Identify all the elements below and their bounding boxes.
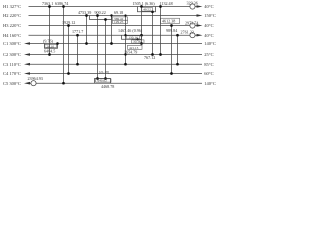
value box 129.25 (H2 split) xyxy=(113,20,128,23)
stream C2 line xyxy=(30,54,203,56)
node H1-63 xyxy=(62,5,65,8)
svg-text:2973.74: 2973.74 xyxy=(185,20,198,25)
svg-text:4468.78: 4468.78 xyxy=(101,84,114,89)
svg-text:4612.38: 4612.38 xyxy=(162,19,175,24)
wire E2 H1-C5 vertical xyxy=(63,7,65,84)
svg-text:6386.74: 6386.74 xyxy=(55,1,68,6)
svg-text:767.12: 767.12 xyxy=(144,55,155,60)
node H4branch-137 xyxy=(136,38,138,40)
svg-text:2761.22: 2761.22 xyxy=(181,30,194,35)
svg-text:C4 170°C: C4 170°C xyxy=(3,71,21,76)
node H2-97 xyxy=(96,14,99,17)
node C3-177 xyxy=(176,63,179,66)
svg-text:4753.39: 4753.39 xyxy=(78,10,91,15)
node H1-160 xyxy=(159,5,162,8)
node C1-112 xyxy=(110,42,113,45)
svg-text:1132.48: 1132.48 xyxy=(160,1,173,6)
svg-text:H4 160°C: H4 160°C xyxy=(3,33,21,38)
node H3-171 xyxy=(170,24,173,27)
stream H4 line xyxy=(29,34,197,36)
node C5branch-105 xyxy=(104,77,107,80)
svg-text:421.13: 421.13 xyxy=(129,46,139,50)
svg-text:30.16: 30.16 xyxy=(133,40,141,44)
node H2-86 xyxy=(85,14,88,17)
node C4-68 xyxy=(67,72,70,75)
svg-text:60°C: 60°C xyxy=(204,71,213,76)
svg-text:40°C: 40°C xyxy=(204,4,213,9)
H2 split loop xyxy=(90,16,112,20)
wire E5 H2-C1 vertical xyxy=(86,16,88,44)
node C2-125 xyxy=(124,53,126,55)
svg-text:C2 300°C: C2 300°C xyxy=(3,52,21,57)
value box 30.16 below H4 loop xyxy=(132,40,145,43)
value box 369.42 (H2 split) xyxy=(113,17,128,20)
wire E4 H4-C3 vertical xyxy=(77,35,79,64)
node C3-77 xyxy=(76,63,79,66)
wire E10 H1branch-C2 vertical xyxy=(152,12,154,55)
node H1branch-152 xyxy=(151,10,154,13)
wire E11 H1-C2b vertical xyxy=(160,7,162,55)
svg-text:(9.76): (9.76) xyxy=(43,38,54,43)
svg-text:23964.93: 23964.93 xyxy=(28,76,43,81)
svg-text:1929.12: 1929.12 xyxy=(62,20,75,25)
wire E1 H1-C2 vertical xyxy=(49,7,51,55)
svg-text:40°C: 40°C xyxy=(204,23,213,28)
svg-text:40°C: 40°C xyxy=(204,33,213,38)
svg-text:150°C: 150°C xyxy=(204,13,216,18)
arrow H4 right xyxy=(197,34,203,37)
svg-text:640.62: 640.62 xyxy=(98,79,108,83)
svg-text:329.36: 329.36 xyxy=(187,0,198,5)
C5 split loop xyxy=(95,79,111,84)
stream H3 line xyxy=(29,25,197,27)
wire E9 H1-H4-C1 vertical xyxy=(141,7,143,44)
node H4-77 xyxy=(76,34,79,37)
stream H2 line xyxy=(29,15,197,17)
svg-text:25°C: 25°C xyxy=(204,52,213,57)
node C3-125 xyxy=(124,63,127,66)
node C2-152 xyxy=(151,53,154,56)
svg-text:140°C: 140°C xyxy=(204,41,216,46)
cooler circle H4 xyxy=(190,33,195,38)
svg-text:C5 300°C: C5 300°C xyxy=(3,81,21,86)
svg-text:1467.46 (0.96): 1467.46 (0.96) xyxy=(118,28,143,33)
arrow C1 left xyxy=(24,42,30,45)
node H2branch-105 xyxy=(104,18,107,21)
node C4-171 xyxy=(170,72,173,75)
wire E13 H4-C3 vertical xyxy=(177,35,179,64)
cooler circle H1 xyxy=(190,4,195,9)
svg-text:1654.79: 1654.79 xyxy=(124,50,137,55)
arrow C5 left xyxy=(24,82,30,85)
svg-text:1771.7: 1771.7 xyxy=(72,29,83,34)
wire E7 H2branch-C5branch vertical xyxy=(105,20,107,79)
svg-text:H2 220°C: H2 220°C xyxy=(3,13,21,18)
svg-text:[21.18]: [21.18] xyxy=(99,70,109,74)
node H2-125 xyxy=(124,14,126,16)
value box 421.13 (C1/C2) xyxy=(128,45,143,49)
stream C1 line xyxy=(30,43,203,45)
node H4-177 xyxy=(176,34,179,37)
value box 49.52 in H1 loop xyxy=(142,7,153,11)
wire E8a H2-C1b vertical xyxy=(111,16,113,44)
node C1-57 xyxy=(56,42,59,45)
svg-text:H3 220°C: H3 220°C xyxy=(3,23,21,28)
svg-text:C3 110°C: C3 110°C xyxy=(3,62,21,67)
svg-text:C1 300°C: C1 300°C xyxy=(3,41,21,46)
arrow H3 right xyxy=(197,24,203,27)
C1 split loop xyxy=(45,44,58,49)
stream H1 line xyxy=(29,6,197,8)
arrow C4 left xyxy=(24,72,30,75)
value box 4612.38 (H3-171) xyxy=(161,18,180,23)
node H1-49 xyxy=(48,5,51,8)
stream C5 line xyxy=(30,82,203,84)
svg-text:900.22: 900.22 xyxy=(95,10,106,15)
node C2-49 xyxy=(48,53,51,56)
svg-text:130.14: 130.14 xyxy=(128,36,138,40)
svg-text:49.52: 49.52 xyxy=(143,8,151,12)
node C2-160 xyxy=(159,53,162,56)
node C5-63 xyxy=(62,82,65,85)
wire E8 H2-C3 vertical xyxy=(125,16,127,65)
value box 26.10 in C1 loop xyxy=(45,44,57,47)
svg-text:85°C: 85°C xyxy=(204,62,213,67)
value box 130.14 in H4 loop xyxy=(127,36,140,39)
arrow H1 right xyxy=(197,5,203,8)
arrow H2 right xyxy=(197,14,203,17)
node H3-68 xyxy=(67,24,70,27)
wire E3 H3-C4 vertical xyxy=(68,26,70,74)
heater circle C5 xyxy=(31,81,36,86)
cooler circle H3 xyxy=(190,23,195,28)
svg-text:H1 327°C: H1 327°C xyxy=(3,4,21,9)
svg-text:7363.1: 7363.1 xyxy=(42,1,53,6)
wire E12 H3-C4b vertical xyxy=(171,26,173,74)
svg-text:129.25: 129.25 xyxy=(114,20,124,24)
arrow C3 left xyxy=(24,63,30,66)
stream C3 line xyxy=(30,63,203,65)
H1 split loop xyxy=(138,7,156,12)
value box 640.62 (C5 branch) xyxy=(96,79,112,82)
H4 split loop xyxy=(122,35,142,39)
node C1-141 xyxy=(140,42,143,45)
wire E6 H2-C5branch vertical xyxy=(97,16,99,79)
node C1-86 xyxy=(85,42,88,45)
node H4-125 xyxy=(124,34,126,36)
svg-text:1505.1 (6.36): 1505.1 (6.36) xyxy=(133,1,156,6)
node H2-112 xyxy=(110,14,112,16)
svg-text:6464.5: 6464.5 xyxy=(44,49,55,54)
node H4-141 xyxy=(140,34,143,37)
arrow C2 left xyxy=(24,53,30,56)
svg-text:69.18: 69.18 xyxy=(114,10,123,15)
node C5branch-97 xyxy=(96,77,99,80)
stream C4 line xyxy=(30,73,203,75)
svg-text:989.84: 989.84 xyxy=(166,28,177,33)
svg-text:140°C: 140°C xyxy=(204,81,216,86)
node H1-141 xyxy=(140,5,143,8)
